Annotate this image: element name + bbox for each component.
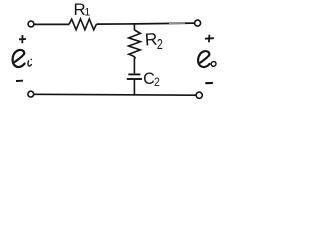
svg-text:R: R [144, 29, 158, 50]
wire top-middle (R1 to node) [97, 23, 135, 25]
label eo script e [198, 51, 210, 67]
resistor R1 [69, 19, 97, 30]
plus sign left [19, 35, 26, 43]
capacitor C2 bottom plate [127, 78, 142, 80]
wire R2 to C2 [133, 58, 135, 74]
wire top-right (node to output terminal) [134, 22, 194, 25]
minus sign left [16, 80, 23, 82]
capacitor C2 top plate [128, 73, 140, 75]
terminal top-right output [195, 20, 201, 26]
svg-text:2: 2 [157, 35, 163, 52]
svg-text:2: 2 [154, 76, 160, 89]
wire top-left (terminal to R1) [35, 23, 70, 25]
plus sign right [205, 35, 214, 43]
svg-text:1: 1 [84, 7, 90, 19]
wire top-right faded overlay [169, 22, 185, 24]
wire R2 top lead [133, 24, 135, 30]
label eo subscript o [211, 62, 216, 67]
terminal top-left input [28, 21, 34, 27]
terminal bottom-right output [196, 92, 202, 98]
label ei subscript i [28, 61, 31, 66]
resistor R2 [129, 30, 141, 59]
label ei script e [13, 50, 25, 67]
minus sign right [205, 82, 213, 84]
terminal bottom-left input [28, 91, 34, 97]
wire C2 bottom lead [133, 80, 135, 95]
wire bottom (left terminal to right terminal) [34, 93, 196, 96]
node junction top [133, 23, 135, 25]
